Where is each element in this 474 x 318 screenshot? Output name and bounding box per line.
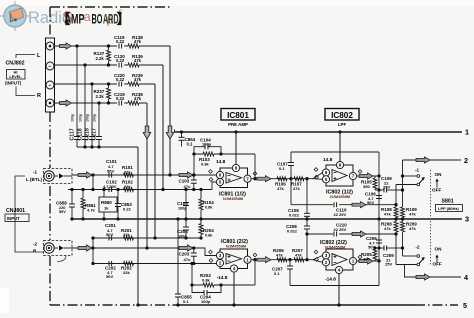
switch S801a arm line [396, 184, 417, 186]
svg-text:100p: 100p [202, 141, 212, 146]
svg-text:47k: 47k [384, 226, 391, 231]
flow arrow down left [143, 126, 151, 139]
svg-text:47k: 47k [295, 253, 302, 258]
svg-text:NJM4558M: NJM4558M [223, 196, 243, 201]
capacitor C220 [117, 81, 124, 87]
resistor R105 [374, 176, 376, 179]
svg-text:1: 1 [465, 128, 469, 137]
wire L input y=175 [72, 174, 193, 176]
svg-text:22k: 22k [123, 232, 130, 237]
svg-text:14.8: 14.8 [216, 159, 226, 165]
svg-text:LEVEL: LEVEL [9, 75, 22, 79]
wire +14.8V rail [175, 131, 463, 133]
svg-text:50V: 50V [59, 210, 66, 214]
wire C110 line y=205 [291, 204, 396, 206]
svg-text:1k: 1k [104, 206, 109, 211]
svg-text:50V: 50V [106, 274, 113, 279]
resistor R104 [200, 190, 202, 200]
svg-text:4: 4 [464, 273, 468, 282]
svg-text:C118: C118 [78, 128, 84, 140]
svg-text:2.2k: 2.2k [96, 94, 105, 99]
svg-text:C103: C103 [179, 179, 190, 184]
signal arrow IC801b out [251, 259, 274, 261]
svg-text:47k: 47k [384, 212, 391, 217]
wire junction drop to C110 line [290, 179, 292, 205]
svg-text:NJM4558M: NJM4558M [330, 194, 350, 199]
capacitor C208 [306, 219, 308, 226]
svg-text:C205: C205 [177, 229, 188, 234]
svg-text:47k: 47k [134, 77, 142, 82]
tap junction [75, 44, 78, 47]
capacitor C106 [376, 195, 382, 197]
svg-text:0.8k: 0.8k [205, 206, 213, 210]
tap junction [97, 101, 100, 104]
switch S801a contact line [403, 175, 417, 177]
resistor R138 [128, 44, 139, 49]
tap junction [83, 63, 86, 66]
svg-text:25V: 25V [383, 185, 390, 190]
capacitor C207 [289, 260, 291, 266]
svg-text:2.2k: 2.2k [96, 56, 105, 61]
node D marks IC802b [314, 250, 318, 254]
resistor R237 [108, 84, 110, 88]
svg-text:47k: 47k [276, 253, 283, 258]
svg-text:390: 390 [363, 184, 370, 189]
wire drop x=163 [162, 65, 164, 190]
svg-text:47k: 47k [134, 96, 142, 101]
svg-text:100p: 100p [79, 113, 83, 122]
svg-text:S801: S801 [442, 199, 454, 205]
svg-text:-14.8: -14.8 [217, 275, 228, 281]
resistor R101 [124, 173, 134, 177]
jack2 shield pigtail [57, 256, 66, 262]
svg-text:100p: 100p [178, 234, 187, 238]
wire pin4 to -14.8 bus [338, 274, 340, 306]
op-amp IC801 (1/2) [220, 168, 248, 188]
svg-text:0.022: 0.022 [287, 229, 298, 234]
wire out node vertical x379 lower [378, 219, 380, 286]
wire IC801b-IC802b [274, 259, 313, 261]
connector CNJ802 strip [46, 38, 55, 112]
wire R input y=248 [72, 247, 193, 249]
svg-text:47k: 47k [134, 39, 142, 44]
wire out node vertical x379 upper [378, 152, 380, 219]
switch S801b contact line [403, 255, 417, 257]
svg-text:C117: C117 [70, 128, 76, 140]
svg-text:OFF: OFF [432, 188, 441, 193]
capacitor C203 [193, 248, 195, 253]
wire pin4 to -14.8 bus [233, 272, 235, 305]
capacitor C853 [117, 190, 119, 204]
signal arrow C110 [352, 202, 366, 208]
svg-text:OFF: OFF [433, 262, 442, 267]
resistor R202 [124, 262, 134, 266]
wire drop x=147 [146, 103, 148, 248]
wire to pin3 [194, 248, 217, 256]
resistor R107 [294, 177, 304, 181]
capacitor C104 [194, 147, 205, 154]
svg-text:ON: ON [435, 172, 443, 177]
svg-text:LPF: LPF [338, 122, 347, 127]
svg-text:22k: 22k [123, 270, 130, 275]
wire R aux y=238 [93, 237, 201, 239]
switch S801b arm line [396, 264, 417, 266]
capacitor C219 [117, 100, 124, 106]
svg-text:LPF (80Hz): LPF (80Hz) [438, 206, 459, 211]
svg-text:0.22: 0.22 [116, 77, 125, 82]
svg-text:C105: C105 [177, 201, 188, 206]
svg-text:4.7k: 4.7k [87, 208, 96, 213]
svg-text:R860: R860 [101, 200, 112, 205]
watermark logo [0, 1, 30, 31]
op-amp IC801 (2/2) [220, 249, 248, 269]
signal arrow IC802b out [357, 260, 380, 262]
output D mark [253, 172, 257, 176]
svg-text:100p: 100p [201, 299, 211, 304]
wire row 1 y=46 [54, 45, 170, 47]
svg-text:4.7 50V: 4.7 50V [103, 184, 117, 189]
resistor R201 [124, 236, 134, 240]
wire row 3 y=84 [54, 83, 155, 85]
wire -14.8V bus [177, 304, 415, 306]
svg-text:R: R [37, 93, 41, 99]
signal arrow row 1 [60, 43, 72, 49]
svg-text:(INPUT): (INPUT) [5, 81, 22, 86]
svg-text:C203: C203 [179, 252, 190, 257]
svg-text:47k: 47k [409, 226, 416, 231]
op-amp IC802 (2/2) [326, 249, 353, 270]
signal arrow IC802a out [357, 175, 380, 177]
signal arrow IC801a out [251, 178, 274, 180]
svg-text:47k: 47k [293, 186, 300, 191]
svg-text:-2: -2 [33, 242, 38, 247]
svg-text:NJM4558M: NJM4558M [325, 244, 345, 249]
svg-text:L (BTL): L (BTL) [26, 177, 42, 182]
svg-text:C217: C217 [92, 128, 98, 141]
wire C210 line y=234 [307, 233, 396, 235]
capacitor C103 [193, 175, 195, 180]
resistor R108 [395, 185, 397, 208]
resistor R102 [124, 188, 134, 192]
resistor R109 [402, 160, 404, 207]
resistor R204 [200, 219, 202, 224]
svg-text:100p: 100p [86, 113, 90, 122]
bracket CNJ802 L [16, 55, 35, 59]
capacitor C101 [108, 173, 110, 178]
svg-text:CNJ801: CNJ801 [6, 208, 25, 214]
capacitor C218 [91, 84, 93, 137]
svg-text:47k: 47k [409, 212, 416, 217]
IC801 label box [221, 109, 255, 121]
wire pin8 to rail [235, 132, 237, 165]
svg-text:50V: 50V [106, 232, 113, 237]
wire row 4 y=103 [54, 102, 147, 104]
svg-text:2: 2 [464, 156, 468, 165]
wire R aux2 y=263.5 [93, 263, 212, 265]
capacitor C206 [376, 239, 382, 241]
svg-text:IC802: IC802 [331, 111, 353, 120]
capacitor C120 [117, 62, 124, 68]
svg-text:50V: 50V [107, 168, 114, 173]
svg-text:25V: 25V [385, 262, 392, 267]
svg-text:C858: C858 [56, 201, 67, 206]
wire stubs to pins [313, 173, 323, 179]
svg-text:100p: 100p [178, 207, 187, 211]
connector pin at y=103 [46, 99, 54, 107]
resistor R208 [395, 219, 397, 222]
output D mark lower [253, 253, 257, 257]
resistor R239 [128, 82, 139, 87]
svg-text:R204: R204 [203, 228, 214, 233]
resistor R203 [203, 283, 214, 288]
svg-text:0.8k: 0.8k [205, 233, 213, 237]
capacitor C205 [185, 219, 187, 227]
signal arrow output 4 [416, 274, 430, 280]
svg-text:C218: C218 [85, 128, 91, 141]
svg-text:47u: 47u [184, 184, 191, 189]
wire C207 to out node lower [290, 285, 379, 287]
svg-text:-14.8: -14.8 [325, 277, 336, 283]
node D marks IC801a [209, 170, 213, 174]
svg-text:22 25V: 22 25V [334, 227, 347, 232]
switch mechanical link [430, 170, 432, 266]
capacitor C202 [108, 261, 110, 266]
board border bottom [50, 304, 177, 306]
svg-text:47u: 47u [184, 257, 191, 262]
svg-text:47k: 47k [277, 186, 284, 191]
wire jog to pin5 [212, 182, 217, 190]
resistor R206 [277, 258, 287, 262]
output D mark IC802a [358, 170, 362, 174]
capacitor C117 [76, 46, 78, 137]
wire C107 to out node [291, 151, 379, 153]
connector pin at y=46 [46, 42, 54, 50]
capacitor C107 [290, 166, 292, 179]
resistor R860 (boxed) [103, 190, 105, 198]
connector pin at y=66 [46, 62, 54, 70]
svg-text:0.22: 0.22 [116, 58, 125, 63]
capacitor C108 [306, 179, 308, 214]
capacitor C209 [375, 247, 384, 249]
capacitor C204 [192, 285, 204, 293]
capacitor C109 [375, 189, 384, 191]
IC802 label box [325, 109, 359, 121]
resistor R139 [128, 63, 139, 68]
node D marks IC801b [209, 250, 213, 254]
svg-text:14.8: 14.8 [323, 157, 333, 163]
wire L aux y=190 [68, 189, 212, 191]
svg-text:CNJ802: CNJ802 [6, 60, 25, 66]
svg-text:0.1: 0.1 [279, 166, 285, 171]
wire feedback [194, 153, 255, 155]
svg-text:AMP: AMP [65, 12, 85, 27]
capacitor C119 [117, 43, 124, 49]
capacitor C110 [333, 202, 339, 208]
svg-text:390: 390 [363, 257, 370, 262]
svg-text:0.8k: 0.8k [201, 162, 210, 167]
svg-text:-1: -1 [415, 168, 420, 173]
wire to pin6 [194, 174, 217, 176]
connector pin at y=85 [46, 81, 54, 89]
wire IC801a-IC802a [274, 178, 316, 180]
capacitor C217 [98, 103, 100, 137]
wire drop x=170 [169, 46, 171, 175]
svg-text:NJM4558M: NJM4558M [226, 244, 246, 249]
capacitor C854 [181, 132, 183, 137]
op-amp IC802 (1/2) [326, 165, 353, 186]
resistor R207 [294, 258, 304, 262]
output D mark IC802b [358, 255, 362, 259]
svg-text:-1: -1 [33, 170, 38, 175]
capacitor C201 [108, 236, 110, 241]
signal arrow L in [78, 172, 92, 178]
svg-text:100p: 100p [71, 113, 75, 122]
wire R105 top tap [375, 175, 379, 177]
input jack -1 L(BTL) [44, 169, 73, 184]
capacitor C210 [333, 231, 339, 237]
svg-text:ON: ON [435, 247, 443, 252]
svg-text:PRE AMP: PRE AMP [228, 122, 248, 127]
capacitor C118 [84, 65, 86, 137]
svg-text:IC801: IC801 [227, 111, 249, 120]
svg-text:100p: 100p [93, 113, 97, 122]
signal arrow R in [78, 245, 92, 251]
svg-text:0.22: 0.22 [116, 96, 125, 101]
node D marks IC802a [314, 168, 318, 172]
svg-text:R104: R104 [203, 200, 214, 205]
svg-text:0.8k: 0.8k [202, 278, 211, 283]
wire drop x=155 [154, 84, 156, 238]
resistor R209 [402, 219, 404, 222]
wire ground bus [72, 218, 462, 220]
svg-text:INPUT: INPUT [7, 216, 20, 221]
signal arrow pre C203 [179, 245, 193, 251]
svg-text:0.1: 0.1 [183, 299, 189, 304]
svg-text:BO: BO [92, 12, 103, 27]
resistor R137 [108, 46, 110, 50]
signal arrow output 2 [416, 157, 430, 163]
signal arrow C210 [352, 231, 366, 237]
svg-text:0.1: 0.1 [274, 271, 280, 276]
tap junction [90, 82, 93, 85]
svg-text:0.022: 0.022 [289, 213, 300, 218]
resistor R238 [128, 101, 139, 106]
svg-text:-2: -2 [416, 245, 421, 250]
flow arrow down right [166, 126, 174, 139]
svg-text:0.1: 0.1 [187, 141, 193, 146]
switch S801a [417, 175, 420, 178]
svg-text:22k: 22k [124, 170, 131, 175]
svg-text:0.22: 0.22 [123, 207, 132, 212]
resistor R106 [277, 177, 287, 181]
svg-text:5: 5 [463, 301, 467, 310]
svg-text:】: 】 [117, 12, 131, 27]
signal arrow row 4 [60, 100, 72, 106]
svg-text:0.22: 0.22 [116, 39, 125, 44]
capacitor C105 [185, 190, 187, 203]
svg-text:47k: 47k [134, 58, 142, 63]
wire output 4 [405, 265, 462, 278]
svg-text:22k: 22k [124, 184, 131, 189]
svg-text:3: 3 [465, 215, 469, 224]
board border top [50, 6, 170, 8]
wire cap-bank common [77, 146, 138, 148]
resistor R205 [373, 249, 377, 260]
capacitor C102 [108, 187, 110, 192]
wire row 2 y=65 [54, 64, 163, 66]
board border left [49, 7, 51, 168]
svg-text:a: a [84, 9, 92, 24]
bracket CNJ802 R [16, 87, 35, 96]
resistor R861 [82, 190, 84, 199]
capacitor C855 [177, 219, 179, 294]
switch S801b [417, 255, 420, 258]
svg-text:22 25V: 22 25V [334, 212, 347, 217]
wire to pin2 [212, 263, 217, 265]
signal arrow pre C103 [179, 172, 193, 178]
capacitor C858 [71, 190, 73, 205]
wire pin8 to rail [339, 132, 341, 162]
wire feedback lower [192, 284, 255, 286]
wire common drop [137, 147, 139, 305]
input jack -2 R [44, 241, 73, 256]
wire output 2 [403, 159, 462, 161]
resistor R103 [203, 152, 214, 157]
bracket CNJ801 [15, 176, 44, 252]
